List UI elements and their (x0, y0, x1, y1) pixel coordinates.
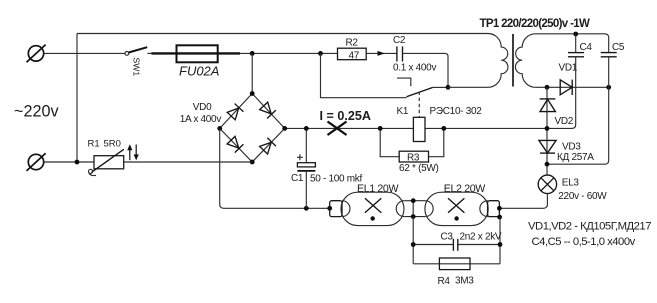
lamp EL2 (425, 192, 488, 225)
bridge diode top-left (227, 104, 244, 121)
wire primary node to transformer (448, 86, 488, 88)
junction dot rail to EL1 (327, 206, 332, 211)
svg-text:2n2 x 2kV: 2n2 x 2kV (460, 231, 502, 242)
wire R2 to C2 with arrow (366, 52, 397, 54)
terminal X2 bottom input (27, 153, 46, 171)
svg-text:SW1: SW1 (132, 58, 142, 77)
junction dot R2 loop left (318, 51, 323, 56)
junction dot mid node (545, 126, 550, 131)
wire EL3 to EL2 right (499, 194, 547, 209)
EL2 cathode dot (454, 216, 458, 220)
EL2 right electrode arc (480, 201, 488, 217)
current arrows up/down (127, 144, 139, 160)
bridge diode bottom-left (227, 136, 244, 153)
svg-text:РЭС10- 302: РЭС10- 302 (430, 106, 483, 117)
junction dots C3 (411, 242, 416, 247)
wire R1 to bridge bottom (124, 161, 252, 163)
svg-text:62 * (5W): 62 * (5W) (399, 163, 439, 174)
capacitor C3 (413, 244, 453, 246)
bridge node dots (250, 91, 255, 96)
junction dot C1 top (304, 126, 309, 131)
wire fuse to R2 node (240, 52, 338, 54)
wire VD1 row (547, 86, 609, 88)
EL1 right electrode arc (396, 201, 404, 217)
junction dots EL2 right (497, 206, 502, 211)
capacitor C5 (601, 53, 617, 57)
EL1 left electrode arc (342, 201, 350, 217)
wire top terminal to switch (44, 52, 125, 54)
svg-text:C5: C5 (612, 42, 625, 53)
svg-text:EL3: EL3 (562, 177, 580, 188)
svg-text:C2: C2 (393, 35, 406, 46)
switch SW1 (125, 47, 147, 55)
svg-text:C4,C5 -- 0,5-1,0 x400v: C4,C5 -- 0,5-1,0 x400v (532, 236, 636, 248)
diode VD1 (560, 80, 572, 95)
contact fixed bracket (397, 78, 411, 86)
EL2 left electrode arc (425, 201, 433, 217)
junction dots inter-lamp (411, 198, 416, 203)
bridge diode bottom-right (259, 138, 276, 155)
svg-text:VD2: VD2 (555, 116, 574, 127)
svg-text:K1: K1 (397, 106, 409, 117)
svg-text:~220v: ~220v (14, 103, 59, 121)
svg-text:47: 47 (349, 50, 360, 61)
resistor R4 (413, 263, 500, 265)
junction dot VD1 out (606, 85, 611, 90)
contact lever (407, 88, 433, 97)
svg-text:I = 0.25A: I = 0.25A (320, 109, 371, 123)
lamp EL3 (538, 175, 556, 193)
svg-text:R4: R4 (438, 276, 451, 287)
EL1 cathode dot (371, 216, 375, 220)
fuse FU02A (147, 45, 240, 62)
svg-text:R3: R3 (407, 153, 420, 164)
svg-text:КД 257А: КД 257А (557, 152, 594, 163)
bridge diode top-right (259, 102, 276, 119)
capacitor C1 polarized (305, 128, 307, 162)
lamp EL1 (341, 192, 404, 225)
junction dot secondary bottom (545, 85, 550, 90)
EL2 right pin box (488, 201, 500, 217)
wire C4 down to mid node (547, 57, 576, 129)
svg-text:TP1 220/220(250)v -1W: TP1 220/220(250)v -1W (480, 18, 591, 30)
svg-text:3М3: 3М3 (455, 275, 474, 286)
capacitor C2 (397, 46, 403, 61)
transformer TP1 secondary coil (515, 34, 535, 88)
capacitor C4 (568, 53, 584, 57)
svg-text:R1: R1 (88, 138, 100, 149)
starter loop C3/R4 left drop (412, 217, 414, 264)
svg-text:EL2 20W: EL2 20W (444, 183, 485, 195)
svg-text:50 - 100 mkf: 50 - 100 mkf (310, 174, 363, 185)
secondary bottom wire (535, 86, 547, 88)
svg-text:R2: R2 (346, 38, 359, 49)
svg-text:C1: C1 (291, 173, 304, 184)
svg-text:EL1 20W: EL1 20W (357, 183, 398, 195)
inter-lamp vertical (412, 201, 414, 217)
middle DC wire (285, 127, 547, 129)
right drop (499, 217, 501, 264)
diode VD3 (546, 128, 548, 175)
transformer core (512, 34, 514, 87)
junction dot bridge top feed (250, 51, 255, 56)
secondary top wire (535, 34, 608, 53)
junction dot VD3 out (545, 162, 550, 167)
svg-text:VD3: VD3 (562, 141, 581, 152)
top frame wire to transformer primary (77, 33, 488, 35)
EL2 X mark (448, 198, 464, 212)
neutral vertical wire x=77 (76, 34, 78, 163)
relay coil K1 (413, 117, 425, 141)
neutral wire to R1 (44, 161, 94, 163)
svg-text:0.1 x 400v: 0.1 x 400v (393, 63, 436, 74)
current arrow (378, 51, 386, 56)
svg-text:FU02A: FU02A (179, 64, 219, 79)
inter-lamp pin lines (404, 200, 425, 202)
svg-text:5R0: 5R0 (104, 138, 121, 149)
terminal X1 top input (27, 45, 46, 63)
junction dots R3 loop (378, 126, 383, 131)
svg-text:C3: C3 (441, 231, 454, 242)
bridge left drop to rail (220, 128, 330, 208)
relay armature dashed link (418, 92, 420, 118)
resistor R2 (338, 48, 367, 60)
wire top feed to bridge (251, 53, 253, 93)
junction dot C4 top (573, 32, 578, 37)
EL1 left pin box (330, 201, 342, 217)
svg-text:1A x 400v: 1A x 400v (180, 114, 222, 125)
resistor R1 thermistor (94, 156, 124, 169)
svg-text:VD1: VD1 (559, 62, 578, 73)
current break X mark (328, 122, 347, 136)
junction dot neutral (75, 160, 80, 165)
bridge rectifier VD0 (220, 94, 285, 163)
diode VD2 (546, 87, 548, 128)
svg-text:VD0: VD0 (193, 102, 212, 113)
transformer TP1 primary coil (488, 34, 508, 88)
EL1 X mark (365, 198, 381, 212)
svg-text:C4: C4 (580, 42, 593, 53)
wire C5 down to VD3 node (547, 57, 609, 164)
junction dot C1 bottom (304, 206, 309, 211)
wire C2 to primary node (403, 53, 449, 87)
junction dot primary node (446, 85, 451, 90)
svg-text:VD1,VD2 - КД105Г,МД217: VD1,VD2 - КД105Г,МД217 (528, 221, 651, 233)
svg-text:220v - 60W: 220v - 60W (558, 191, 607, 202)
relay contact K1.1 loop (321, 53, 407, 97)
resistor R3 bypass loop (380, 128, 399, 156)
